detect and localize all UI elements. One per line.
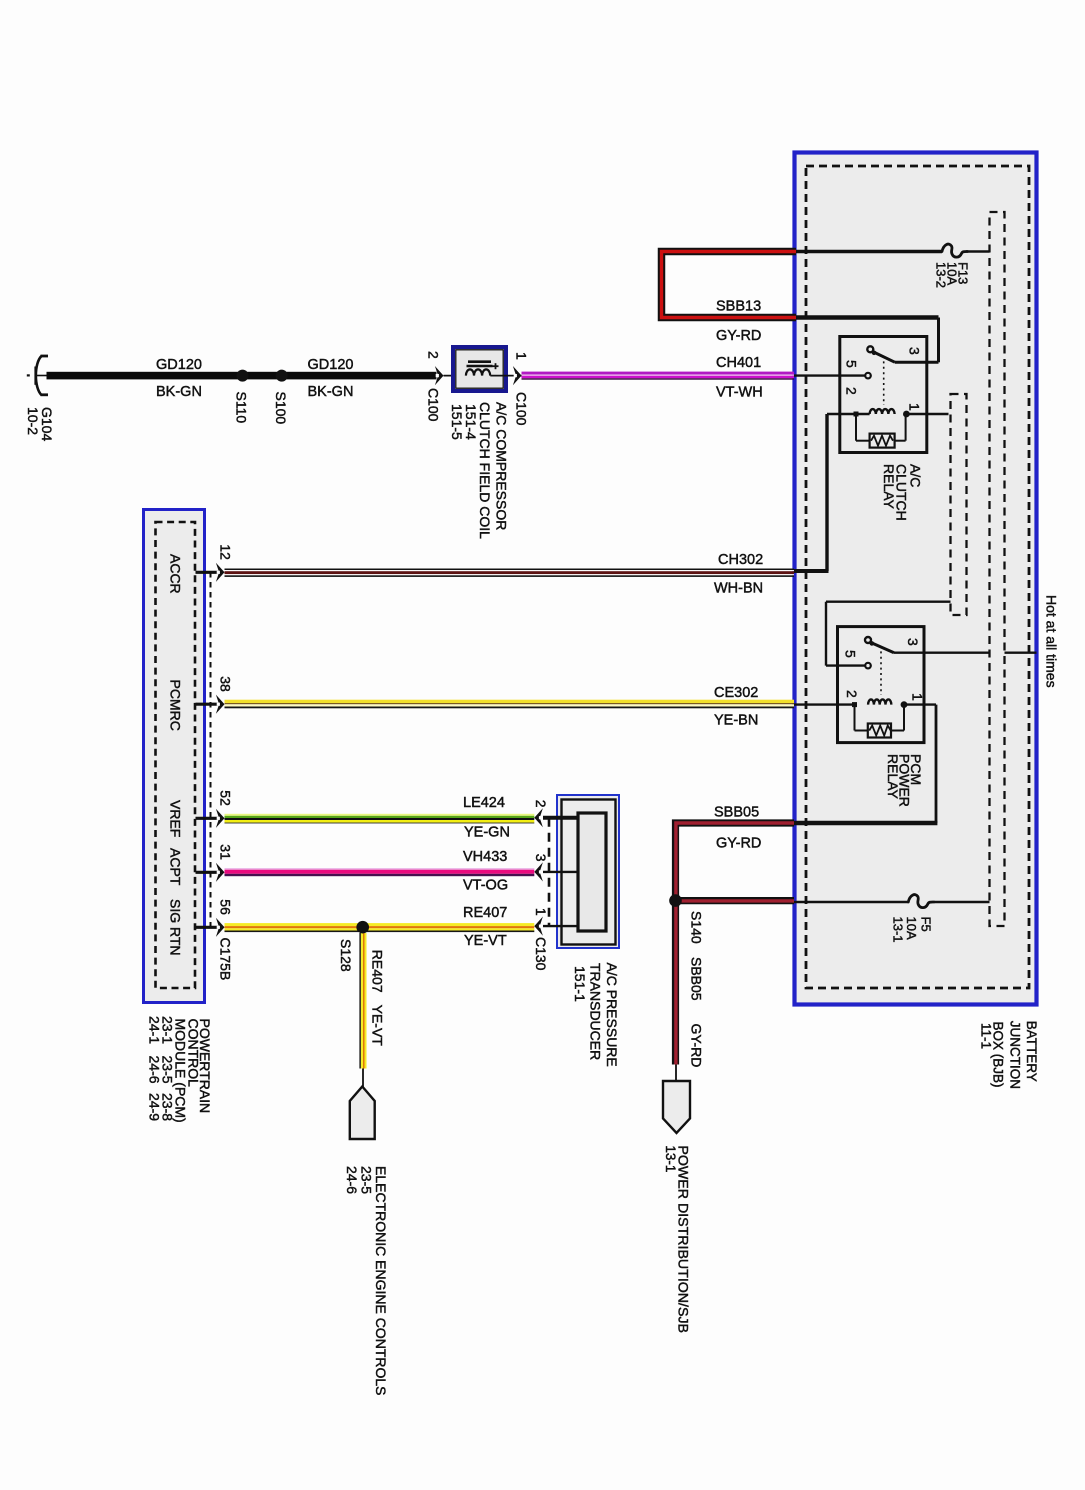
svg-text:1: 1 <box>513 352 529 360</box>
svg-text:VT-WH: VT-WH <box>716 385 763 401</box>
svg-text:3: 3 <box>533 854 549 862</box>
svg-text:CH401: CH401 <box>716 355 761 371</box>
svg-text:YE-VT: YE-VT <box>464 933 507 949</box>
svg-text:SBB13: SBB13 <box>716 299 761 315</box>
svg-text:RE407: RE407 <box>463 905 507 921</box>
svg-text:10-2: 10-2 <box>25 407 41 435</box>
svg-text:S128: S128 <box>338 939 354 972</box>
svg-text:LE424: LE424 <box>463 795 505 811</box>
svg-text:CE302: CE302 <box>714 685 758 701</box>
svg-text:POWER DISTRIBUTION/SJB: POWER DISTRIBUTION/SJB <box>675 1145 691 1333</box>
svg-text:VREF: VREF <box>168 800 184 837</box>
svg-text:2: 2 <box>533 800 549 808</box>
svg-text:BK-GN: BK-GN <box>156 384 202 400</box>
svg-text:5: 5 <box>844 360 860 368</box>
svg-text:YE-GN: YE-GN <box>464 825 510 841</box>
svg-text:RELAY: RELAY <box>885 754 901 800</box>
svg-text:VT-OG: VT-OG <box>463 878 508 894</box>
svg-text:13-1: 13-1 <box>663 1145 678 1172</box>
svg-text:RE407: RE407 <box>369 950 385 993</box>
svg-text:F5: F5 <box>919 917 934 932</box>
svg-text:A/C COMPRESSOR: A/C COMPRESSOR <box>493 402 509 530</box>
svg-text:S140: S140 <box>688 911 704 944</box>
svg-text:1: 1 <box>907 403 923 411</box>
svg-text:151-5: 151-5 <box>449 404 465 440</box>
svg-text:5: 5 <box>843 650 859 658</box>
svg-text:RELAY: RELAY <box>881 464 897 510</box>
svg-text:VH433: VH433 <box>463 849 507 865</box>
svg-text:YE-VT: YE-VT <box>369 1005 385 1047</box>
svg-text:C130: C130 <box>533 937 549 971</box>
svg-text:24-9: 24-9 <box>147 1093 163 1121</box>
svg-text:1: 1 <box>910 693 926 701</box>
svg-text:GD120: GD120 <box>156 357 202 373</box>
svg-text:56: 56 <box>217 899 233 915</box>
svg-text:BK-GN: BK-GN <box>308 384 354 400</box>
svg-text:BATTERY: BATTERY <box>1024 1021 1039 1082</box>
svg-text:S100: S100 <box>273 392 289 425</box>
svg-text:SBB05: SBB05 <box>714 805 759 821</box>
svg-text:24-6: 24-6 <box>147 1056 163 1084</box>
svg-text:GD120: GD120 <box>308 357 354 373</box>
svg-text:PCMRC: PCMRC <box>168 680 184 731</box>
svg-text:A/C PRESSURE: A/C PRESSURE <box>604 963 620 1067</box>
svg-text:13-2: 13-2 <box>933 262 948 288</box>
svg-text:24-6: 24-6 <box>344 1166 360 1194</box>
svg-text:TRANSDUCER: TRANSDUCER <box>588 963 604 1060</box>
svg-text:ACPT: ACPT <box>168 848 184 886</box>
svg-text:C175B: C175B <box>217 938 233 981</box>
svg-text:YE-BN: YE-BN <box>714 713 758 729</box>
svg-text:38: 38 <box>217 676 233 692</box>
svg-text:JUNCTION: JUNCTION <box>1007 1021 1022 1089</box>
svg-text:2: 2 <box>426 351 442 359</box>
svg-text:GY-RD: GY-RD <box>716 836 761 852</box>
svg-text:3: 3 <box>905 638 921 646</box>
svg-text:SIG RTN: SIG RTN <box>168 899 184 956</box>
svg-text:GY-RD: GY-RD <box>716 328 761 344</box>
svg-text:GY-RD: GY-RD <box>688 1024 704 1068</box>
svg-text:C100: C100 <box>426 388 442 422</box>
svg-text:151-1: 151-1 <box>572 966 588 1002</box>
svg-text:Hot at all times: Hot at all times <box>1043 595 1059 688</box>
svg-text:3: 3 <box>907 347 923 355</box>
svg-text:2: 2 <box>844 387 860 395</box>
svg-text:12: 12 <box>217 544 233 560</box>
svg-text:CH302: CH302 <box>718 552 763 568</box>
svg-text:2: 2 <box>844 690 860 698</box>
svg-text:13-1: 13-1 <box>891 917 906 943</box>
svg-text:24-1: 24-1 <box>147 1016 163 1044</box>
svg-text:31: 31 <box>217 844 233 860</box>
svg-text:C100: C100 <box>513 392 529 426</box>
svg-text:S110: S110 <box>234 392 250 424</box>
svg-text:ACCR: ACCR <box>168 554 184 594</box>
svg-text:1: 1 <box>533 908 549 916</box>
svg-text:ELECTRONIC ENGINE CONTROLS: ELECTRONIC ENGINE CONTROLS <box>373 1166 389 1395</box>
svg-text:52: 52 <box>217 790 233 806</box>
svg-text:SBB05: SBB05 <box>688 957 704 1001</box>
svg-text:11-1: 11-1 <box>978 1023 993 1049</box>
svg-text:WH-BN: WH-BN <box>714 581 763 597</box>
